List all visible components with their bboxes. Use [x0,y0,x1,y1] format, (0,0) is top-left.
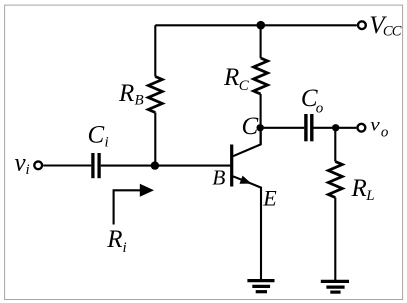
resistor RB [148,77,162,113]
label vi [15,149,30,178]
terminal vi [34,161,42,169]
label Ci [88,121,109,150]
node: input/base junction [151,161,159,169]
node C (collector) [257,124,264,131]
resistor RL [328,162,342,198]
wire: vi to Ci [43,164,91,166]
wire: RB bottom lead to base node [154,113,156,166]
node: junction of RB and RC on top rail [257,21,266,30]
wire: RC top lead [260,25,262,58]
svg-text:B: B [135,93,144,109]
svg-text:C: C [88,121,105,148]
svg-text:o: o [381,125,389,141]
terminal VCC [358,21,366,29]
terminal vo [358,124,366,132]
wire: top VCC rail [155,24,356,26]
svg-text:o: o [316,101,324,117]
wire: Co to vo terminal [314,127,357,129]
wire: RL bottom lead [334,198,336,282]
svg-text:C: C [239,78,250,94]
label vo [370,115,389,140]
svg-text:CC: CC [383,24,402,40]
ground (emitter) [247,281,274,292]
resistor RC [254,58,268,94]
svg-text:C: C [242,113,259,140]
label RL [351,175,375,204]
wire: collector to Co [261,127,305,129]
svg-text:R: R [351,175,367,202]
ground (RL) [321,281,349,292]
transistor Q1 emitter arrow [240,176,252,184]
label Ri [106,226,126,256]
svg-text:B: B [212,165,225,189]
label RB [118,80,144,109]
svg-text:L: L [365,188,374,204]
label VCC [369,12,402,39]
wire: RC bottom lead to collector node [260,94,262,144]
transistor Q1 emitter lead [233,176,261,280]
wire: RL top lead [334,128,336,162]
wire: Ci to base of transistor [101,165,231,167]
wire: RB top lead [154,25,156,76]
svg-text:R: R [223,64,239,91]
svg-text:i: i [26,162,30,178]
svg-text:R: R [118,80,134,107]
svg-text:v: v [370,115,380,135]
capacitor Ci [93,153,99,178]
svg-text:R: R [106,226,122,253]
transistor Q1 collector lead [233,128,261,156]
capacitor Co [306,114,312,141]
arrow Ri (input resistance pointer) [114,184,154,225]
label RC [223,64,250,94]
svg-text:i: i [105,135,109,151]
svg-text:i: i [123,240,127,256]
transistor Q1 base bar [230,145,233,187]
node: output junction (Co / RL) [332,124,339,131]
svg-text:E: E [262,185,277,210]
label Co [301,85,324,117]
